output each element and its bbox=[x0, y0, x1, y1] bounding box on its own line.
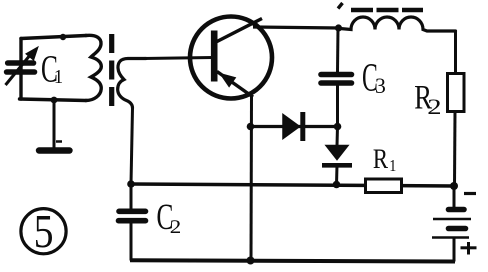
wire base (to transistor) bbox=[143, 58, 213, 59]
resistor R1 bbox=[366, 179, 402, 193]
junction node D2 on mid rail bbox=[333, 181, 341, 189]
ground bbox=[39, 142, 70, 151]
diode D2 bbox=[322, 146, 352, 186]
plus sign bbox=[461, 242, 477, 255]
wire C2 to bottom rail bbox=[130, 223, 133, 261]
tank circuit loop wire bbox=[20, 36, 87, 101]
label C3 bbox=[363, 64, 385, 93]
label R2 bbox=[415, 86, 440, 114]
transistor Q1 (PNP) bbox=[190, 17, 272, 99]
junction node emitter/diode bbox=[247, 123, 255, 131]
wire C3 to D1 node bbox=[336, 86, 339, 128]
junction node tank bottom bbox=[51, 97, 58, 104]
label C1 bbox=[42, 56, 62, 83]
capacitor C2 bbox=[119, 211, 146, 220]
wire L2 bottom to mid rail bbox=[131, 108, 133, 184]
junction node bottom rail bbox=[247, 257, 255, 265]
inductor L3 core dashes bbox=[351, 8, 423, 13]
label R1 bbox=[373, 149, 395, 171]
core tick mark bbox=[338, 3, 343, 9]
wire collector to top rail bbox=[253, 27, 340, 28]
resistor R2 bbox=[448, 74, 465, 112]
junction node top rail bbox=[335, 24, 342, 31]
figure number 5 (circled) bbox=[21, 209, 66, 254]
inductor L3 bbox=[340, 17, 456, 31]
label C2 bbox=[158, 205, 181, 233]
junction node mid rail left bbox=[127, 180, 135, 188]
junction node D1 cathode bbox=[334, 123, 342, 131]
wire emitter down bbox=[250, 96, 254, 261]
wire tank to ground bbox=[53, 100, 56, 149]
junction node mid rail right bbox=[450, 182, 458, 190]
capacitor C3 bbox=[321, 75, 352, 84]
battery B1 bbox=[432, 186, 471, 262]
coil L2 (secondary winding) bbox=[118, 59, 146, 109]
transformer core (dashed bar) bbox=[109, 34, 114, 106]
wire C3 branch (top) bbox=[336, 28, 340, 72]
mid rail wire bbox=[131, 184, 454, 186]
wire R2 to junction bbox=[453, 112, 457, 187]
junction node tank top bbox=[60, 34, 66, 40]
wire D1 node to D2 bbox=[336, 127, 340, 147]
minus sign bbox=[464, 192, 476, 195]
diode D1 wire bbox=[251, 125, 338, 128]
bottom rail wire bbox=[130, 260, 455, 261]
variable capacitor C1 bbox=[6, 47, 39, 85]
wire to C2 bbox=[130, 184, 133, 209]
wire top rail to R2 bbox=[454, 31, 457, 75]
coil L1 (tank inductor right side) bbox=[86, 35, 101, 100]
diode D1 bbox=[283, 112, 303, 141]
